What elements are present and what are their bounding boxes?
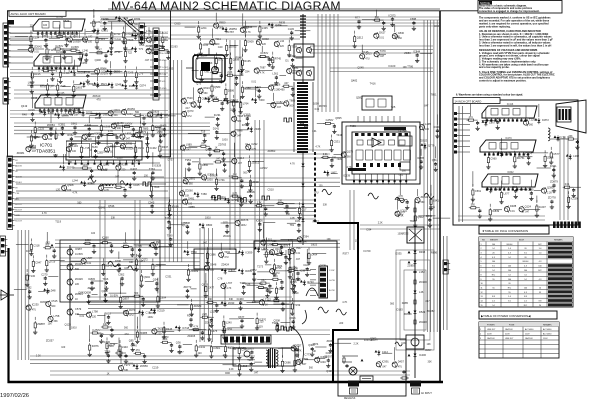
svg-text:Q813: Q813 [205, 148, 212, 152]
svg-text:D1: D1 [285, 58, 289, 62]
svg-text:IC678: IC678 [94, 131, 101, 135]
svg-text:IC807: IC807 [228, 269, 235, 273]
svg-text:1K: 1K [245, 143, 248, 146]
svg-text:IC406: IC406 [419, 353, 426, 357]
svg-text:IC651: IC651 [101, 29, 108, 33]
svg-text:T130: T130 [29, 274, 35, 278]
svg-text:ZD618: ZD618 [247, 190, 255, 194]
svg-text:10K: 10K [124, 267, 129, 270]
svg-text:R377: R377 [343, 251, 350, 255]
svg-text:L667: L667 [331, 171, 337, 175]
svg-text:IC777: IC777 [157, 128, 164, 132]
svg-text:L786: L786 [58, 133, 64, 137]
svg-text:2.2K: 2.2K [229, 368, 234, 371]
svg-text:.047: .047 [424, 105, 429, 108]
svg-text:560: 560 [123, 242, 128, 245]
svg-text:110V: 110V [543, 338, 548, 340]
svg-text:G-CW: G-CW [329, 280, 335, 282]
svg-text:Q378: Q378 [202, 282, 209, 286]
svg-text:C777: C777 [305, 353, 312, 357]
svg-text:100: 100 [72, 150, 77, 153]
svg-text:IC430: IC430 [103, 340, 110, 344]
svg-text:D349: D349 [433, 125, 440, 129]
svg-text:IC851: IC851 [58, 122, 65, 126]
svg-text:10K: 10K [286, 213, 291, 216]
svg-text:Q511: Q511 [432, 158, 439, 162]
svg-text:ZD689: ZD689 [194, 304, 202, 308]
svg-text:2.2K: 2.2K [36, 354, 41, 357]
svg-text:Q580: Q580 [214, 85, 221, 89]
svg-text:IC100: IC100 [388, 64, 395, 68]
svg-text:H-OUT: H-OUT [15, 220, 23, 222]
svg-text:220: 220 [273, 240, 278, 243]
svg-text:1U/50V: 1U/50V [73, 40, 81, 43]
svg-text:ZD38: ZD38 [252, 180, 259, 184]
svg-text:100: 100 [425, 128, 430, 131]
svg-text:IC467: IC467 [130, 167, 137, 171]
svg-text:5: 5 [481, 261, 482, 263]
svg-text:IC711: IC711 [114, 32, 121, 36]
svg-text:IC519: IC519 [158, 308, 165, 312]
svg-text:R370: R370 [129, 308, 136, 312]
svg-text:1A/250V: 1A/250V [525, 337, 533, 340]
svg-text:47U: 47U [182, 225, 187, 228]
svg-text:IC787: IC787 [227, 30, 234, 34]
svg-text:C78: C78 [218, 276, 223, 280]
svg-text:1U/50V: 1U/50V [260, 52, 268, 55]
svg-text:C318: C318 [33, 244, 40, 248]
svg-text:T111: T111 [215, 37, 221, 41]
svg-text:IC628: IC628 [154, 163, 161, 167]
svg-text:.047: .047 [201, 142, 206, 145]
svg-text:Q509: Q509 [107, 344, 114, 348]
svg-text:V-OUT: V-OUT [162, 32, 169, 34]
svg-text:L707: L707 [226, 281, 232, 285]
svg-text:ZD282: ZD282 [427, 309, 435, 313]
svg-text:T925: T925 [272, 321, 278, 325]
svg-text:Q719: Q719 [49, 260, 56, 264]
svg-text:L766: L766 [262, 247, 268, 251]
svg-text:L283: L283 [97, 150, 103, 154]
svg-text:Q482: Q482 [351, 78, 358, 82]
svg-text:T786: T786 [407, 64, 413, 68]
svg-text:D274: D274 [140, 84, 147, 88]
svg-text:ZD263: ZD263 [170, 45, 178, 49]
svg-text:ZD676: ZD676 [241, 218, 249, 222]
svg-text:AC 50/60: AC 50/60 [543, 328, 552, 331]
svg-text:Q225: Q225 [320, 263, 327, 267]
svg-text:T953: T953 [185, 158, 191, 162]
svg-text:MV-64: MV-64 [523, 261, 530, 263]
svg-text:T189: T189 [92, 145, 98, 149]
svg-text:C350: C350 [81, 61, 88, 65]
svg-text:220: 220 [208, 97, 213, 100]
svg-text:33K: 33K [114, 114, 119, 117]
svg-text:T149: T149 [192, 328, 198, 332]
svg-text:T689: T689 [336, 157, 342, 161]
svg-text:.047: .047 [284, 82, 289, 85]
svg-text:GND: GND [162, 60, 167, 62]
svg-text:47U: 47U [129, 314, 134, 317]
svg-text:T229: T229 [529, 118, 535, 122]
svg-text:D16: D16 [140, 43, 145, 47]
svg-text:220: 220 [198, 352, 203, 355]
svg-text:ZD431: ZD431 [223, 234, 231, 238]
svg-text:IC845: IC845 [88, 277, 95, 281]
svg-text:T479: T479 [380, 49, 386, 53]
svg-text:4.7K: 4.7K [104, 189, 109, 192]
svg-text:IC718: IC718 [182, 326, 189, 330]
svg-text:220: 220 [210, 269, 215, 272]
svg-text:4.7K: 4.7K [347, 166, 352, 169]
svg-text:L940: L940 [122, 345, 128, 349]
svg-text:220: 220 [280, 45, 285, 48]
svg-text:AC 50/60: AC 50/60 [525, 328, 534, 331]
svg-text:Q124: Q124 [525, 204, 532, 208]
svg-text:D386: D386 [228, 88, 235, 92]
svg-text:controls to adjust in maximum: controls to adjust in maximum position. [479, 79, 527, 82]
svg-text:IC872: IC872 [542, 118, 549, 122]
svg-text:4.7K: 4.7K [146, 30, 151, 33]
svg-text:IC339: IC339 [103, 125, 110, 129]
svg-text:100: 100 [319, 184, 324, 187]
svg-text:T416: T416 [370, 81, 376, 85]
svg-text:C145: C145 [288, 27, 295, 31]
svg-text:R446: R446 [166, 327, 173, 331]
svg-text:IC666: IC666 [104, 183, 111, 187]
svg-text:C579: C579 [75, 307, 82, 311]
svg-text:.047: .047 [295, 258, 300, 261]
svg-text:D835: D835 [426, 214, 433, 218]
svg-text:1U/50V: 1U/50V [124, 122, 132, 125]
svg-text:R/C: R/C [492, 274, 496, 276]
svg-text:AV/S1 JACK CRT BOARD: AV/S1 JACK CRT BOARD [11, 12, 47, 16]
svg-text:T874: T874 [312, 342, 318, 346]
svg-text:C791: C791 [219, 178, 226, 182]
svg-text:2.2K: 2.2K [378, 221, 383, 224]
svg-text:less than 1 are expressed in m: less than 1 are expressed in mH, the val… [479, 44, 551, 47]
svg-text:R639: R639 [279, 20, 286, 24]
svg-text:C477: C477 [208, 286, 215, 290]
svg-text:33K: 33K [428, 361, 433, 364]
svg-text:T25: T25 [391, 105, 396, 109]
svg-text:L764: L764 [243, 102, 249, 106]
svg-text:0.01: 0.01 [123, 310, 128, 313]
svg-text:parts only when replacing.: parts only when replacing. [479, 25, 511, 28]
svg-text:IC701: IC701 [40, 143, 53, 148]
svg-text:IC754: IC754 [56, 16, 63, 19]
svg-text:ZD597: ZD597 [324, 355, 332, 359]
svg-text:100U: 100U [71, 327, 77, 330]
svg-text:47U: 47U [275, 272, 280, 275]
svg-text:220: 220 [92, 316, 97, 319]
svg-text:L393: L393 [573, 154, 579, 158]
svg-text:C399: C399 [106, 161, 113, 165]
svg-text:100U: 100U [127, 113, 133, 116]
svg-text:4.7K: 4.7K [342, 301, 347, 304]
svg-text:ZD772: ZD772 [184, 285, 192, 289]
svg-text:100U: 100U [205, 217, 211, 220]
svg-text:1K: 1K [210, 62, 213, 65]
svg-text:560: 560 [237, 120, 242, 123]
svg-text:MV-64: MV-64 [507, 244, 514, 246]
svg-text:C510: C510 [268, 188, 275, 192]
svg-text:Q54: Q54 [153, 278, 158, 282]
svg-text:1U/50V: 1U/50V [75, 253, 83, 256]
svg-text:C531: C531 [334, 140, 341, 144]
svg-text:ZD100: ZD100 [419, 280, 427, 284]
svg-text:LINE FLT: LINE FLT [505, 338, 514, 340]
svg-text:L677: L677 [504, 192, 510, 196]
svg-text:L818: L818 [241, 364, 247, 368]
svg-text:1U/50V: 1U/50V [289, 266, 297, 269]
svg-text:IC90: IC90 [512, 185, 518, 189]
svg-text:T851: T851 [431, 93, 437, 97]
svg-text:L655: L655 [168, 67, 174, 71]
svg-text:ZD610: ZD610 [93, 94, 101, 98]
svg-text:IC973: IC973 [389, 13, 396, 17]
svg-text:4.7K: 4.7K [58, 32, 63, 35]
svg-text:9: 9 [481, 279, 482, 281]
svg-text:IC729: IC729 [364, 249, 371, 253]
svg-text:10K: 10K [132, 30, 137, 33]
svg-text:L475: L475 [211, 329, 217, 333]
svg-text:.047: .047 [274, 297, 279, 300]
svg-text:1U/50V: 1U/50V [325, 119, 333, 122]
svg-text:T685: T685 [142, 126, 148, 130]
svg-text:ZD238: ZD238 [419, 320, 427, 324]
svg-text:▶TABLE OF POWER CONVERSION◀: ▶TABLE OF POWER CONVERSION◀ [481, 314, 531, 318]
svg-text:D286: D286 [210, 252, 217, 256]
svg-text:560: 560 [77, 201, 82, 204]
svg-text:C655: C655 [174, 21, 181, 25]
svg-text:L495: L495 [425, 122, 431, 126]
svg-text:1: 1 [480, 329, 481, 331]
svg-text:47U: 47U [469, 116, 474, 119]
svg-text:TO CRT BOARD: TO CRT BOARD [228, 347, 246, 350]
svg-text:R825: R825 [127, 38, 134, 42]
svg-text:IC904: IC904 [326, 351, 333, 355]
svg-text:D410: D410 [292, 291, 299, 295]
svg-text:.047: .047 [145, 59, 150, 62]
svg-text:220: 220 [256, 88, 261, 91]
svg-text:2.2K: 2.2K [257, 202, 262, 205]
svg-text:4.7K: 4.7K [72, 191, 77, 194]
svg-text:1U/50V: 1U/50V [71, 46, 79, 49]
svg-text:C40: C40 [218, 45, 223, 49]
svg-text:D627: D627 [379, 31, 386, 35]
svg-text:D163: D163 [397, 307, 404, 311]
svg-text:ZD985: ZD985 [139, 331, 147, 335]
svg-text:100U: 100U [313, 102, 319, 105]
svg-text:L587: L587 [87, 256, 93, 260]
svg-text:560: 560 [309, 367, 314, 370]
svg-text:4: 4 [481, 257, 482, 259]
svg-text:47U: 47U [398, 366, 403, 369]
svg-text:100U: 100U [222, 139, 228, 142]
svg-text:R784: R784 [134, 17, 141, 21]
svg-text:ZD749: ZD749 [319, 104, 327, 108]
svg-text:C395: C395 [74, 107, 81, 111]
svg-text:C64: C64 [279, 287, 284, 291]
svg-text:560: 560 [204, 92, 209, 95]
svg-text:ZD684: ZD684 [47, 123, 55, 127]
svg-text:1U/50V: 1U/50V [280, 245, 288, 248]
svg-text:IC978: IC978 [231, 339, 238, 343]
svg-text:connection is engaged to chang: connection is engaged to change for impr… [479, 10, 540, 13]
svg-text:IC539: IC539 [343, 173, 350, 177]
svg-text:C219: C219 [152, 366, 159, 370]
svg-text:ZD257: ZD257 [46, 339, 54, 343]
svg-text:C445: C445 [133, 183, 140, 187]
svg-text:C604: C604 [160, 296, 167, 300]
svg-text:10K: 10K [327, 238, 332, 241]
svg-text:33K: 33K [323, 203, 328, 206]
svg-text:T885: T885 [289, 98, 295, 102]
svg-text:R594: R594 [84, 70, 91, 74]
svg-text:47U: 47U [299, 214, 304, 217]
svg-text:★TABLE OF INCH CONVERSION: ★TABLE OF INCH CONVERSION [482, 229, 528, 233]
svg-text:VIDEO: VIDEO [15, 182, 22, 184]
svg-text:REMARK: REMARK [554, 238, 563, 241]
svg-text:1U/50V: 1U/50V [110, 294, 118, 297]
svg-text:.047: .047 [125, 138, 130, 141]
svg-text:IC141: IC141 [198, 345, 205, 349]
svg-text:Q677: Q677 [238, 315, 245, 319]
svg-text:FUSE: FUSE [509, 325, 515, 327]
svg-text:2.2K: 2.2K [230, 109, 235, 112]
svg-text:Q176: Q176 [347, 150, 354, 154]
svg-text:IC876: IC876 [92, 344, 99, 348]
svg-text:L219: L219 [210, 309, 216, 313]
svg-text:.047: .047 [276, 106, 281, 109]
svg-text:.047: .047 [525, 210, 530, 213]
svg-text:4.7K: 4.7K [226, 287, 231, 290]
svg-text:C76: C76 [138, 72, 143, 76]
svg-text:L31: L31 [312, 129, 317, 133]
svg-text:Q559: Q559 [87, 82, 94, 86]
svg-text:8: 8 [481, 274, 482, 276]
svg-text:0.01: 0.01 [46, 242, 51, 245]
svg-text:C440: C440 [131, 344, 138, 348]
svg-text:C135: C135 [362, 50, 369, 54]
svg-text:IC15: IC15 [203, 43, 209, 47]
svg-text:.047: .047 [216, 158, 221, 161]
svg-text:L34: L34 [280, 39, 285, 43]
svg-text:C404: C404 [311, 253, 318, 257]
svg-text:4.7K: 4.7K [187, 102, 192, 105]
svg-text:IC104: IC104 [525, 152, 532, 156]
svg-text:ZD778: ZD778 [548, 196, 556, 200]
svg-text:560: 560 [134, 23, 139, 26]
svg-text:1K: 1K [75, 298, 78, 301]
svg-text:560: 560 [421, 201, 426, 204]
svg-text:IC960: IC960 [102, 236, 109, 240]
svg-text:L344: L344 [85, 123, 91, 127]
svg-text:IC460: IC460 [237, 297, 244, 301]
svg-text:L82: L82 [88, 35, 93, 39]
svg-text:Q17: Q17 [302, 207, 307, 211]
svg-text:Q419: Q419 [21, 104, 28, 108]
svg-text:Q653: Q653 [76, 85, 83, 89]
svg-text:T458: T458 [504, 151, 510, 155]
svg-text:C795: C795 [136, 244, 143, 248]
svg-text:10K: 10K [103, 151, 108, 154]
svg-text:T122: T122 [265, 297, 271, 301]
svg-text:220: 220 [278, 199, 283, 202]
svg-text:1K: 1K [110, 150, 113, 153]
svg-text:.047: .047 [237, 135, 242, 138]
svg-text:Q842: Q842 [78, 291, 85, 295]
svg-text:C935: C935 [31, 96, 38, 100]
svg-text:R695: R695 [150, 311, 157, 315]
svg-text:560: 560 [390, 303, 395, 306]
svg-text:C331: C331 [165, 275, 172, 279]
svg-text:C867: C867 [489, 120, 496, 124]
svg-text:Q779: Q779 [428, 143, 435, 147]
svg-text:ZD426: ZD426 [75, 277, 83, 281]
svg-text:.047: .047 [382, 365, 387, 368]
svg-text:ZD689: ZD689 [404, 312, 412, 316]
svg-text:INCH: INCH [519, 239, 524, 241]
svg-text:220: 220 [262, 43, 267, 46]
svg-text:100: 100 [88, 41, 93, 44]
svg-text:H-OUT: H-OUT [162, 53, 170, 55]
svg-text:ZD684: ZD684 [146, 44, 154, 48]
svg-text:C224: C224 [33, 35, 40, 39]
svg-text:R529: R529 [63, 19, 70, 23]
svg-text:R803: R803 [105, 311, 112, 315]
svg-text:Q804: Q804 [152, 242, 159, 246]
svg-text:ZD751: ZD751 [517, 156, 525, 160]
svg-text:C485: C485 [527, 187, 534, 191]
svg-text:H-OUT: H-OUT [15, 204, 23, 206]
svg-text:33K: 33K [54, 320, 59, 323]
svg-text:R952: R952 [67, 133, 74, 137]
svg-text:1U/50V: 1U/50V [266, 244, 274, 247]
svg-text:T816: T816 [153, 185, 159, 189]
svg-text:33K: 33K [229, 298, 234, 301]
svg-text:IC81: IC81 [73, 34, 79, 38]
svg-text:C781: C781 [292, 66, 299, 70]
svg-text:R184: R184 [90, 21, 97, 25]
svg-text:T22: T22 [128, 51, 133, 55]
svg-text:Q595: Q595 [62, 113, 69, 117]
svg-text:10K: 10K [67, 189, 72, 192]
svg-text:R507: R507 [143, 133, 150, 137]
svg-text:2.2K: 2.2K [197, 106, 202, 109]
svg-text:C945: C945 [148, 200, 155, 204]
svg-text:ZD489: ZD489 [190, 269, 198, 273]
svg-text:D351: D351 [429, 205, 436, 209]
svg-text:560: 560 [124, 327, 129, 330]
svg-text:ZD612: ZD612 [251, 160, 259, 164]
svg-text:ZD853: ZD853 [268, 149, 276, 153]
svg-text:.047: .047 [425, 300, 430, 303]
svg-text:R/C: R/C [524, 305, 528, 307]
svg-text:47U: 47U [32, 309, 37, 312]
svg-text:100: 100 [43, 24, 48, 27]
svg-text:IC462: IC462 [150, 146, 157, 150]
svg-text:R/C: R/C [538, 244, 542, 246]
svg-text:REMARK: REMARK [543, 324, 552, 327]
svg-text:C515: C515 [51, 299, 58, 303]
svg-text:14: 14 [481, 301, 483, 303]
svg-text:R160: R160 [245, 86, 252, 90]
svg-text:R850: R850 [219, 21, 226, 25]
svg-text:560: 560 [313, 220, 318, 223]
svg-text:220: 220 [157, 332, 162, 335]
